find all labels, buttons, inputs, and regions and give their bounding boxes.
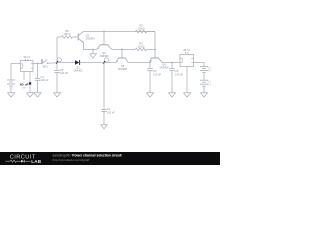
svg-text:C2: C2 <box>107 108 111 111</box>
svg-text:1N4001: 1N4001 <box>73 68 83 72</box>
svg-text:R5: R5 <box>65 29 69 33</box>
svg-text:C5: C5 <box>60 68 64 72</box>
svg-text:100 uF: 100 uF <box>41 78 49 82</box>
svg-text:LAB: LAB <box>31 159 42 164</box>
svg-text:http://circuitlab.com/c6g42f: http://circuitlab.com/c6g42f <box>53 158 90 162</box>
svg-text:100 uF: 100 uF <box>60 71 68 75</box>
svg-text:D2: D2 <box>76 65 80 69</box>
svg-text:5 V: 5 V <box>185 51 189 55</box>
svg-text:Q4: Q4 <box>162 62 166 66</box>
svg-text:Q3: Q3 <box>121 64 125 68</box>
svg-text:2N3906: 2N3906 <box>118 67 128 71</box>
svg-text:C3: C3 <box>153 69 157 73</box>
svg-text:5 V: 5 V <box>25 58 29 62</box>
svg-text:V3: V3 <box>208 80 212 83</box>
svg-text:10 kΩ: 10 kΩ <box>138 27 145 31</box>
svg-text:R2: R2 <box>139 24 143 28</box>
svg-text:V2: V2 <box>208 67 212 70</box>
svg-text:Q2: Q2 <box>102 51 106 55</box>
svg-text:C6: C6 <box>175 69 179 73</box>
svg-text:100 uF: 100 uF <box>175 72 183 76</box>
svg-text:2N3906: 2N3906 <box>159 66 169 70</box>
svg-text:SW1: SW1 <box>42 64 48 68</box>
svg-text:3 V: 3 V <box>208 83 212 86</box>
svg-text:100 uF: 100 uF <box>153 72 161 76</box>
svg-text:2N3904: 2N3904 <box>86 37 96 41</box>
svg-text:R3: R3 <box>139 42 143 46</box>
svg-text:Q1: Q1 <box>86 33 90 37</box>
svg-text:C4: C4 <box>41 75 45 79</box>
svg-text:3 V: 3 V <box>208 70 212 73</box>
svg-text:niru: niru <box>22 87 27 90</box>
svg-text:100 Ω: 100 Ω <box>64 32 71 36</box>
svg-text:NO_uP: NO_uP <box>20 82 29 86</box>
svg-text:10 kΩ: 10 kΩ <box>138 45 145 49</box>
svg-text:2N3906: 2N3906 <box>99 54 109 58</box>
svg-text:samchop99 / Power channel sele: samchop99 / Power channel selection circ… <box>53 154 123 158</box>
svg-text:100 nF: 100 nF <box>107 111 115 114</box>
